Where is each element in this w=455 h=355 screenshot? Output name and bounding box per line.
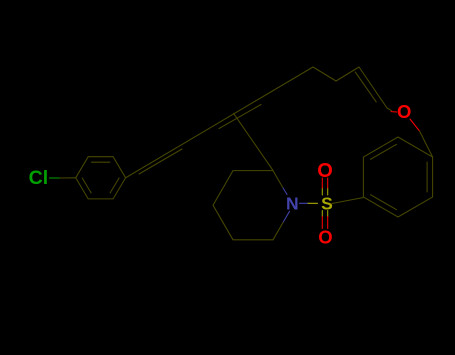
piperidine ring edges [213, 171, 273, 240]
ring 1 inner double bond (lower-left edge) [82, 178, 91, 193]
ring 2 inner double bond (bottom-left edge) [371, 195, 397, 210]
bond chain to piperidine C2 [234, 113, 274, 170]
svg-text:O: O [397, 101, 411, 122]
bond C*-O (C half) [387, 108, 392, 111]
ring 2 inner double bond (right edge) [426, 162, 428, 192]
bond C*-O (O half, red) [391, 111, 397, 113]
ring 1 inner double bond (top edge) [92, 161, 110, 163]
S=O lower double bond line 2 (S half) [327, 211, 329, 217]
piperidine N-C6 edge (C half) [273, 223, 283, 240]
piperidine top edge [233, 170, 273, 172]
svg-text:Cl: Cl [29, 167, 49, 189]
benzene ring 1 (4-chlorophenyl) [76, 157, 126, 199]
bond Cl-ring (C half) [60, 177, 76, 179]
zigzag double bond companion [355, 72, 376, 102]
bond O-ring2 (C half) [420, 131, 433, 157]
polyene chain main line [126, 67, 313, 178]
piperidine C2-N edge (N half, blue) [283, 188, 287, 195]
bond N-S (N half, blue) [300, 202, 309, 204]
ring 2 inner double bond (top-left edge) [371, 144, 397, 159]
piperidine N-C6 edge (N half, blue) [283, 211, 290, 222]
svg-text:S: S [321, 193, 333, 213]
svg-text:O: O [317, 160, 333, 182]
S=O upper double bond line 1 (S half) [321, 188, 323, 195]
bond S-ring2 [332, 198, 363, 204]
chain zigzag segment 2 [336, 67, 359, 81]
S=O upper double bond line 1 (O half) [321, 178, 323, 188]
S=O upper double bond line 2 (O half) [327, 178, 329, 188]
ring 1 inner double bond (lower-right edge) [110, 178, 119, 193]
chain zigzag segment 3 (to enol ether carbon) [359, 67, 387, 108]
svg-text:O: O [318, 226, 332, 247]
S=O lower double bond line 1 (S half) [321, 211, 323, 217]
chain double bond companion 2 [219, 105, 261, 129]
bond O-ring2 (O half, red) [410, 119, 420, 131]
benzene ring 2 [363, 137, 432, 217]
piperidine C2-N edge (C half) [273, 171, 283, 188]
svg-text:N: N [286, 194, 299, 214]
bond N-S (S half, olive) [308, 202, 318, 204]
bond Cl-ring (Cl half, green) [50, 177, 61, 179]
S=O lower double bond line 1 (O half) [321, 217, 323, 229]
chain zigzag segment 1 [313, 67, 336, 81]
chain double bond companion 1 [139, 149, 182, 174]
S=O lower double bond line 2 (O half) [327, 217, 329, 229]
S=O upper double bond line 2 (S half) [327, 188, 329, 195]
